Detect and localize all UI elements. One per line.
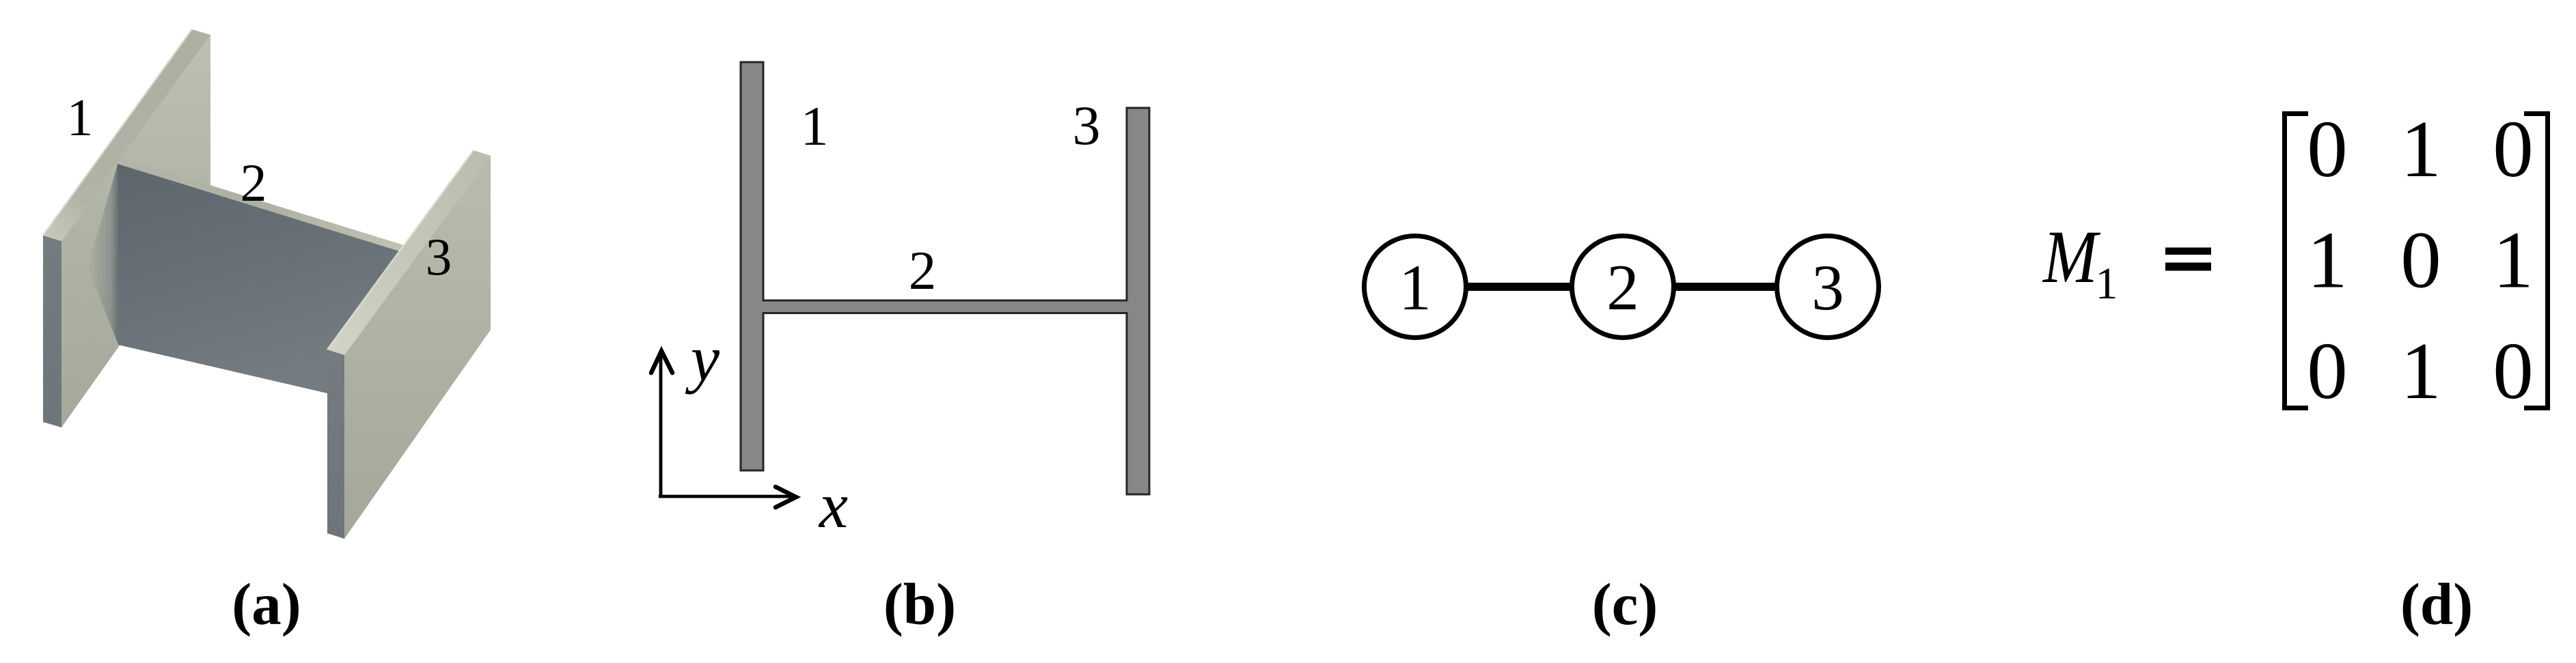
flange plate 1: near end face: [43, 236, 61, 427]
svg-text:(b): (b): [883, 571, 956, 637]
left bracket: [2282, 111, 2308, 410]
flange plate 1: top face: [43, 29, 210, 241]
flange plate 3: top face: [327, 150, 491, 355]
shadow of web on flange 1 inner face: [87, 165, 118, 344]
flange plate 1: inner side face: [61, 35, 210, 427]
svg-text:0: 0: [2400, 215, 2441, 305]
svg-text:1: 1: [801, 95, 829, 157]
svg-text:(a): (a): [232, 571, 301, 637]
svg-text:y: y: [685, 322, 720, 395]
svg-text:1: 1: [2096, 259, 2118, 309]
svg-text:0: 0: [2493, 104, 2534, 194]
svg-text:3: 3: [1073, 94, 1101, 156]
svg-text:3: 3: [1811, 251, 1844, 324]
right bracket: [2524, 111, 2550, 410]
svg-text:x: x: [818, 469, 848, 541]
flange plate 3: near end face: [327, 350, 344, 539]
svg-text:M: M: [2042, 216, 2100, 299]
svg-text:(d): (d): [2400, 571, 2473, 637]
node 2: [1572, 236, 1674, 338]
svg-text:1: 1: [2493, 215, 2534, 305]
svg-text:0: 0: [2307, 326, 2348, 416]
svg-text:3: 3: [426, 227, 452, 286]
svg-text:(c): (c): [1592, 571, 1658, 637]
svg-text:2: 2: [241, 153, 267, 212]
flange plate 3: silhouette highlight: [327, 150, 474, 350]
equals sign: [2165, 248, 2211, 255]
edge 2-3: [1640, 283, 1811, 291]
svg-text:1: 1: [2400, 104, 2441, 194]
H cross-section (flange 1, web 2, flange 3): [741, 62, 1149, 494]
svg-text:0: 0: [2307, 104, 2348, 194]
web plate 2: near face: [118, 164, 400, 393]
symbol M1: [2042, 216, 2100, 299]
y axis: [659, 354, 663, 497]
node 1: [1365, 236, 1466, 338]
x axis: [659, 495, 791, 498]
svg-text:1: 1: [2400, 326, 2441, 416]
flange plate 1: silhouette highlight: [43, 29, 192, 236]
svg-text:1: 1: [1399, 251, 1431, 324]
node 3: [1777, 236, 1879, 338]
svg-text:2: 2: [909, 240, 937, 301]
web plate 2: top face: [118, 158, 404, 251]
svg-text:0: 0: [2493, 326, 2534, 416]
edge 1-2: [1435, 283, 1606, 291]
svg-text:1: 1: [67, 88, 94, 147]
flange plate 3: outer side face: [344, 156, 491, 539]
svg-text:2: 2: [1606, 251, 1639, 324]
svg-text:1: 1: [2307, 215, 2348, 305]
